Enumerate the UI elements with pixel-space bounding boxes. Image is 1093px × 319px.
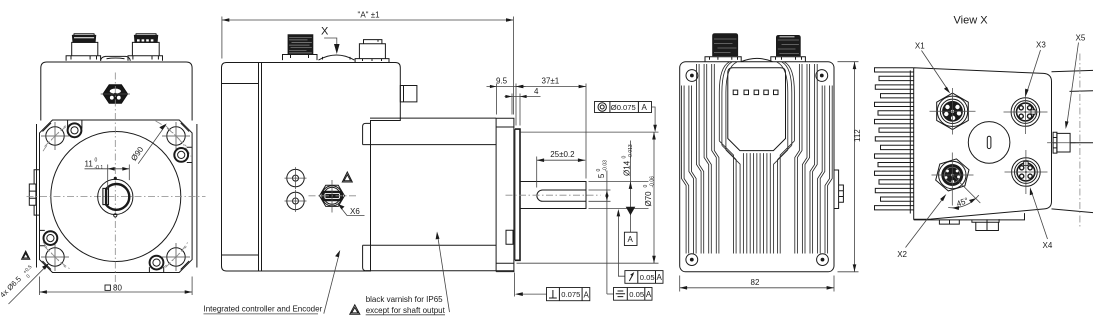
motor band line bottom <box>363 244 497 246</box>
svg-text:except for shaft output: except for shaft output <box>366 306 446 315</box>
X6 centerline <box>309 195 359 197</box>
warning triangle X6 <box>342 172 352 182</box>
LED window circle 1 <box>285 167 307 189</box>
dim 25±0.2 <box>537 150 586 188</box>
4x Ø6.5 leader <box>0 263 49 304</box>
svg-text:X3: X3 <box>1036 41 1046 50</box>
dim square 80 <box>40 277 193 296</box>
X6 label leader <box>338 204 365 216</box>
connector left body <box>72 34 98 56</box>
connector X4 <box>1005 150 1048 194</box>
svg-text:Ø70: Ø70 <box>644 191 653 207</box>
connector X1 <box>930 88 976 135</box>
screw head 3 <box>40 230 58 245</box>
svg-text:X4: X4 <box>1043 241 1053 250</box>
corner screw TL <box>686 70 698 82</box>
shaft centerline <box>506 194 601 196</box>
label X2 <box>897 194 946 259</box>
svg-text:A: A <box>628 235 634 244</box>
X5 centerline vertical <box>1079 54 1081 229</box>
screw head 4 <box>149 256 163 272</box>
svg-text:Ø14: Ø14 <box>623 160 632 176</box>
label X1 <box>915 41 950 93</box>
tiny hole bottom of hub <box>114 214 117 217</box>
left side connector profile <box>29 170 39 215</box>
bottom label leader 1 <box>204 250 341 314</box>
vertical centerline <box>114 73 116 289</box>
svg-text:X5: X5 <box>1076 33 1086 42</box>
screw head 1 <box>68 121 82 138</box>
bolt circle arcs (dash-dot) <box>43 124 70 151</box>
rear gasket dome <box>741 58 772 61</box>
svg-text:-0.03: -0.03 <box>603 160 609 172</box>
fins root line <box>909 71 911 214</box>
45 degree annotation <box>948 175 980 210</box>
LED squares <box>733 90 778 95</box>
motor bottom edge <box>366 270 514 272</box>
svg-text:80: 80 <box>113 284 122 293</box>
corner hole TL <box>41 122 69 150</box>
dim 9.5 <box>487 77 526 126</box>
label X4 <box>1030 187 1053 250</box>
hex screw top center <box>101 85 130 104</box>
motor bottom collar <box>363 245 370 270</box>
svg-text:X2: X2 <box>897 250 907 259</box>
dim Ø14 <box>589 141 649 233</box>
side protrusion connector <box>400 86 417 102</box>
datum A <box>624 207 637 246</box>
connector right body <box>132 34 159 56</box>
label X3 <box>1025 41 1046 97</box>
label X5 <box>1065 33 1086 129</box>
svg-text:X1: X1 <box>915 41 925 50</box>
chamfer inner lines <box>43 123 190 270</box>
rear cover edge right <box>196 124 198 268</box>
feet below <box>939 219 999 230</box>
motor top edge <box>370 117 496 119</box>
gasket dome side <box>319 55 355 60</box>
svg-text:11: 11 <box>85 160 94 169</box>
svg-text:0.075: 0.075 <box>561 290 580 299</box>
dim 5 keyway <box>589 160 611 294</box>
flange octagon <box>40 120 193 273</box>
svg-text:black varnish for IP65: black varnish for IP65 <box>366 295 443 304</box>
perpendicularity tolerance frame <box>514 273 589 301</box>
LED panel <box>728 68 786 151</box>
svg-text:X6: X6 <box>350 207 360 216</box>
svg-text:4: 4 <box>534 87 539 96</box>
X5 region lines <box>1052 70 1093 212</box>
small box on flange bottom <box>506 230 513 244</box>
connector left base plate <box>66 56 101 61</box>
top connector right (cap) <box>355 40 389 63</box>
svg-text:Integrated controller and Enco: Integrated controller and Encoder <box>204 305 323 314</box>
dim A±1 <box>222 11 514 115</box>
svg-text:82: 82 <box>751 278 760 287</box>
corner hole BR <box>162 243 190 271</box>
svg-text:9.5: 9.5 <box>496 77 508 86</box>
svg-text:A: A <box>584 290 590 299</box>
connector X3 <box>1004 90 1048 134</box>
dim 4 <box>505 87 541 126</box>
runout tolerance frame <box>617 209 663 283</box>
X view arrow <box>321 26 340 55</box>
screw head 2 <box>174 147 192 162</box>
rear cover edge left <box>36 124 38 268</box>
svg-text:A: A <box>642 103 648 112</box>
keyway slot <box>537 190 586 201</box>
svg-text:37±1: 37±1 <box>542 77 560 86</box>
connector X6 <box>320 185 345 206</box>
svg-text:-0.06: -0.06 <box>650 176 656 188</box>
corner screw TR <box>816 70 828 82</box>
rear connector right <box>777 36 801 56</box>
face outline <box>914 68 1052 220</box>
position tolerance frame <box>595 102 657 133</box>
shaft circle bold with flat <box>106 184 129 210</box>
warning triangle front <box>22 251 30 259</box>
symmetry tolerance frame <box>607 288 652 301</box>
motor band line top <box>363 144 497 146</box>
corner screw BR <box>817 254 829 266</box>
svg-text:-0.013: -0.013 <box>628 144 634 158</box>
dim Ø70 <box>517 132 659 263</box>
rear connector left <box>713 34 738 56</box>
svg-text:5: 5 <box>597 173 606 178</box>
connector X2 <box>932 153 974 206</box>
center blind plug <box>968 122 1010 164</box>
dim 37±1 <box>516 77 586 179</box>
svg-text:0: 0 <box>596 169 602 172</box>
svg-text:A: A <box>657 273 663 282</box>
body upper housing <box>41 62 192 121</box>
corner screw BL <box>686 254 698 266</box>
Ø90 leader and label <box>129 124 167 164</box>
motor body right edge <box>495 118 497 271</box>
X5 connector side <box>1047 132 1093 153</box>
svg-text:"A" ±1: "A" ±1 <box>358 11 381 20</box>
dim 11 -0.1 <box>85 158 130 190</box>
motor top collar <box>363 123 370 144</box>
corner hole TR <box>162 122 190 150</box>
top connector threaded (left) <box>283 35 318 60</box>
rear connector base plates <box>705 57 805 62</box>
connector right base plate <box>128 56 163 61</box>
dim 112 <box>838 62 863 272</box>
hub keyway slot <box>103 188 109 204</box>
boss and face <box>515 129 520 260</box>
dim 82 <box>680 276 834 292</box>
corner hole BL <box>41 243 69 271</box>
svg-text:0.05: 0.05 <box>629 290 644 299</box>
svg-text:X: X <box>321 26 329 38</box>
motor face circle <box>51 132 181 262</box>
tiny hole top of hub <box>114 177 117 180</box>
housing outline <box>222 63 401 272</box>
cooling fins center group <box>743 153 770 253</box>
bottom label leader 2 <box>350 232 450 315</box>
rear fin area lines <box>222 63 262 271</box>
shaft <box>520 182 586 209</box>
svg-text:View X: View X <box>954 15 989 27</box>
gasket dome between connectors <box>101 56 131 60</box>
svg-text:Ø0.075: Ø0.075 <box>611 103 636 112</box>
horizontal centerline <box>27 196 206 198</box>
svg-text:0: 0 <box>95 158 98 164</box>
rear body <box>680 62 834 272</box>
svg-text:112: 112 <box>853 129 862 142</box>
rear side element <box>834 170 843 209</box>
svg-text:25±0.2: 25±0.2 <box>550 150 575 159</box>
svg-text:0.05: 0.05 <box>640 273 655 282</box>
svg-text:A: A <box>646 290 652 299</box>
fins side profile <box>875 68 914 210</box>
center shaft hub outer circle <box>98 179 133 214</box>
cooling fins side groups <box>682 62 833 254</box>
svg-text:0: 0 <box>643 185 649 188</box>
svg-text:-0.1: -0.1 <box>95 165 104 171</box>
svg-text:0: 0 <box>622 156 628 159</box>
LED window circle 2 <box>285 190 307 212</box>
flange plate <box>496 118 514 271</box>
